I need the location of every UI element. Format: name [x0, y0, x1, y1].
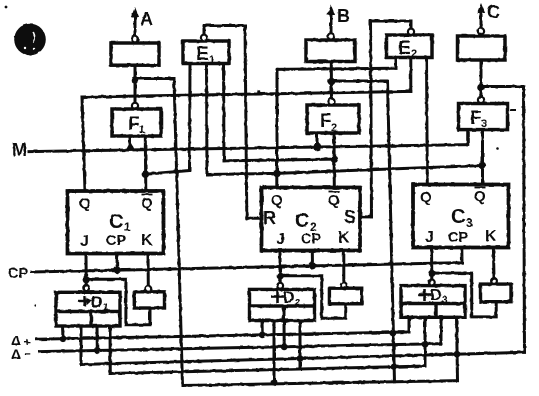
svg-text:Q: Q	[328, 192, 340, 209]
svg-text:R: R	[263, 208, 276, 228]
svg-text:C: C	[451, 206, 465, 228]
svg-text:F: F	[128, 114, 140, 135]
svg-text:CP: CP	[301, 232, 321, 248]
svg-text:D: D	[283, 290, 295, 307]
svg-text:B: B	[337, 6, 350, 26]
svg-text:K: K	[485, 228, 497, 245]
svg-text:C: C	[487, 2, 500, 22]
svg-text:Q: Q	[420, 189, 432, 206]
svg-text:E: E	[398, 38, 411, 59]
svg-text:J: J	[425, 229, 434, 246]
svg-text:D: D	[430, 287, 442, 304]
svg-text:1: 1	[209, 54, 215, 66]
svg-text:2: 2	[295, 298, 301, 309]
svg-text:Q: Q	[271, 192, 283, 209]
svg-text:M: M	[12, 140, 27, 160]
svg-text:CP: CP	[106, 233, 126, 249]
svg-text:J: J	[80, 233, 89, 250]
svg-text:1: 1	[124, 220, 131, 234]
svg-text:J: J	[276, 231, 285, 248]
svg-text:A: A	[140, 9, 153, 29]
svg-text:CP: CP	[448, 230, 468, 246]
svg-text:1: 1	[139, 124, 145, 136]
svg-text:1: 1	[103, 302, 109, 313]
svg-text:E: E	[196, 44, 209, 65]
svg-text:Q: Q	[79, 195, 91, 212]
svg-text:3: 3	[481, 118, 487, 130]
svg-text:CP: CP	[8, 266, 28, 282]
svg-text:3: 3	[466, 216, 473, 230]
svg-text:C: C	[295, 210, 309, 232]
svg-text:K: K	[141, 232, 153, 249]
svg-text:2: 2	[411, 48, 417, 60]
svg-text:S: S	[344, 207, 356, 227]
svg-text:–: –	[24, 346, 31, 360]
svg-text:Q: Q	[141, 195, 153, 212]
svg-text:3: 3	[442, 295, 448, 306]
svg-text:K: K	[338, 230, 350, 247]
svg-text:F: F	[470, 108, 482, 129]
svg-text:2: 2	[331, 122, 337, 134]
svg-text:F: F	[320, 111, 332, 132]
svg-text:D: D	[91, 294, 103, 311]
svg-text:Q: Q	[474, 188, 486, 205]
svg-text:Δ: Δ	[11, 346, 21, 362]
svg-text:C: C	[109, 211, 123, 233]
